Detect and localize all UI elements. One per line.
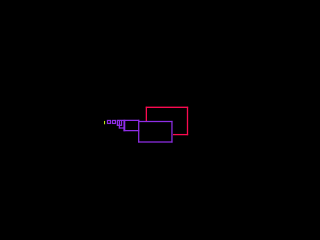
wire: red right edge <box>187 107 189 136</box>
window W4 bottom edge <box>119 127 125 129</box>
shared vertical: W5 right / W6 left <box>138 120 140 143</box>
window W5 bottom edge <box>123 130 139 132</box>
wire: common top line <box>117 119 140 121</box>
window W3 right edge <box>121 120 123 126</box>
window W3 left edge <box>116 120 118 126</box>
window W1 (tiny) <box>107 120 110 123</box>
wire: red left edge (visible part) <box>145 107 147 121</box>
window W5 left edge (double bar) <box>123 120 125 131</box>
window W6 top edge <box>139 121 173 123</box>
purple cascade of windows <box>107 120 172 143</box>
window W6 right edge <box>171 121 173 143</box>
window W2 (tiny) <box>112 120 115 123</box>
window W4 left edge <box>118 120 120 128</box>
red window W7 (back) <box>146 107 188 136</box>
window W6 bottom edge <box>138 141 173 143</box>
wire: red top edge <box>146 106 188 108</box>
yellow caret <box>104 121 105 124</box>
wire: red bottom edge (visible part) <box>173 134 188 136</box>
window W3 bottom edge <box>117 124 122 126</box>
